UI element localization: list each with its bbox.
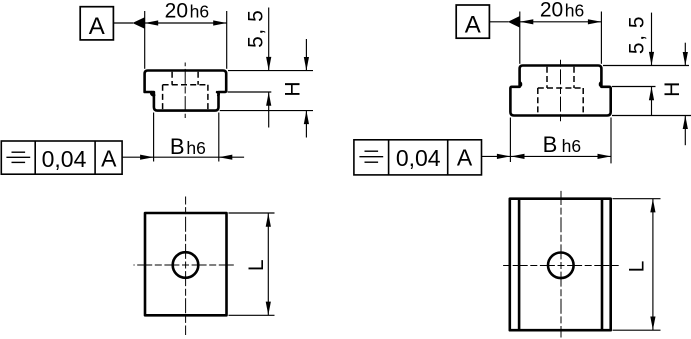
svg-text:A: A (465, 12, 481, 39)
svg-text:H: H (281, 81, 304, 96)
L extension lines left (229, 212, 275, 214)
extension line top edge left (for 5,5 and H) (228, 70, 313, 72)
front view rect left (145, 213, 227, 315)
centerline vertical front right (560, 191, 562, 338)
svg-text:A: A (101, 146, 117, 172)
extension line bottom edge right (for H) (612, 115, 691, 117)
svg-text:h6: h6 (190, 2, 209, 22)
datum leader right (490, 21, 509, 23)
L dimension right (652, 199, 654, 331)
dimension 5,5 left (268, 8, 270, 71)
hidden line thread bore right view (546, 67, 548, 88)
dimension line B right with inside arrows (510, 155, 611, 157)
datum box A left (80, 7, 113, 40)
front view hole right (548, 252, 574, 278)
dimension 5,5 right (651, 13, 653, 66)
svg-text:B: B (170, 134, 185, 159)
relief nose left step (151, 92, 154, 95)
svg-text:A: A (457, 144, 473, 170)
svg-text:20: 20 (165, 0, 188, 23)
svg-text:h6: h6 (186, 138, 205, 158)
symmetry symbol left (12, 151, 26, 153)
side view outline left (145, 71, 227, 111)
hidden line thread bore left view (171, 72, 173, 85)
extension line 20h6 right-right (600, 12, 602, 64)
centerline side view left (184, 63, 186, 119)
extension line 20h6 left-left (144, 11, 146, 69)
front view rect right (510, 199, 611, 331)
leader from frame right (482, 155, 511, 157)
hidden line counterbore right view (537, 88, 539, 114)
svg-text:20: 20 (540, 0, 563, 21)
dimension H left (305, 39, 307, 70)
svg-text:L: L (245, 259, 268, 271)
svg-text:5,5: 5,5 (244, 9, 267, 48)
svg-text:h6: h6 (562, 136, 581, 156)
dimension line 20h6 left (145, 22, 227, 24)
datum triangle left (132, 17, 144, 29)
svg-text:B: B (543, 132, 558, 157)
L extension lines right (613, 198, 661, 200)
svg-text:A: A (89, 13, 105, 40)
extension line 20h6 left-right (226, 11, 228, 69)
dimension H right (684, 43, 686, 66)
svg-text:0,04: 0,04 (396, 145, 441, 171)
extension line 20h6 right-left (519, 12, 521, 64)
relief nose right-view left step (520, 82, 521, 85)
svg-text:L: L (626, 261, 649, 273)
L dimension left (267, 213, 269, 315)
feature control frame left (1, 141, 122, 174)
extension line bottom edge left (for H) (220, 110, 313, 112)
symmetry symbol right (365, 150, 379, 152)
extension lines B right (509, 118, 511, 163)
svg-text:5,5: 5,5 (626, 15, 649, 54)
centerline horizontal front left (134, 264, 236, 266)
extension line top edge right (for 5,5 and H) (603, 65, 689, 67)
relief nose right-view right step (600, 82, 601, 85)
feature control frame right (354, 140, 482, 175)
centerline side view right (560, 58, 562, 123)
svg-text:0,04: 0,04 (42, 146, 87, 172)
svg-text:H: H (661, 82, 684, 97)
datum leader left (114, 22, 133, 24)
side view outline right (510, 66, 610, 116)
front view hole left (173, 252, 199, 278)
hidden line counterbore left view (162, 85, 164, 110)
datum box A right (456, 5, 489, 39)
extension line step left (for 5,5) (228, 91, 272, 93)
dimension line B left with outside arrows (122, 156, 244, 158)
datum triangle right (508, 16, 520, 28)
front view step lines right (518, 200, 521, 330)
centerline vertical front left (185, 197, 187, 336)
extension lines B left (153, 113, 155, 162)
extension line step right (for 5,5) (612, 86, 656, 88)
centerline horizontal front right (501, 265, 619, 267)
svg-text:h6: h6 (565, 0, 584, 20)
dimension line 20h6 right (520, 21, 602, 23)
relief nose right step (217, 92, 219, 95)
